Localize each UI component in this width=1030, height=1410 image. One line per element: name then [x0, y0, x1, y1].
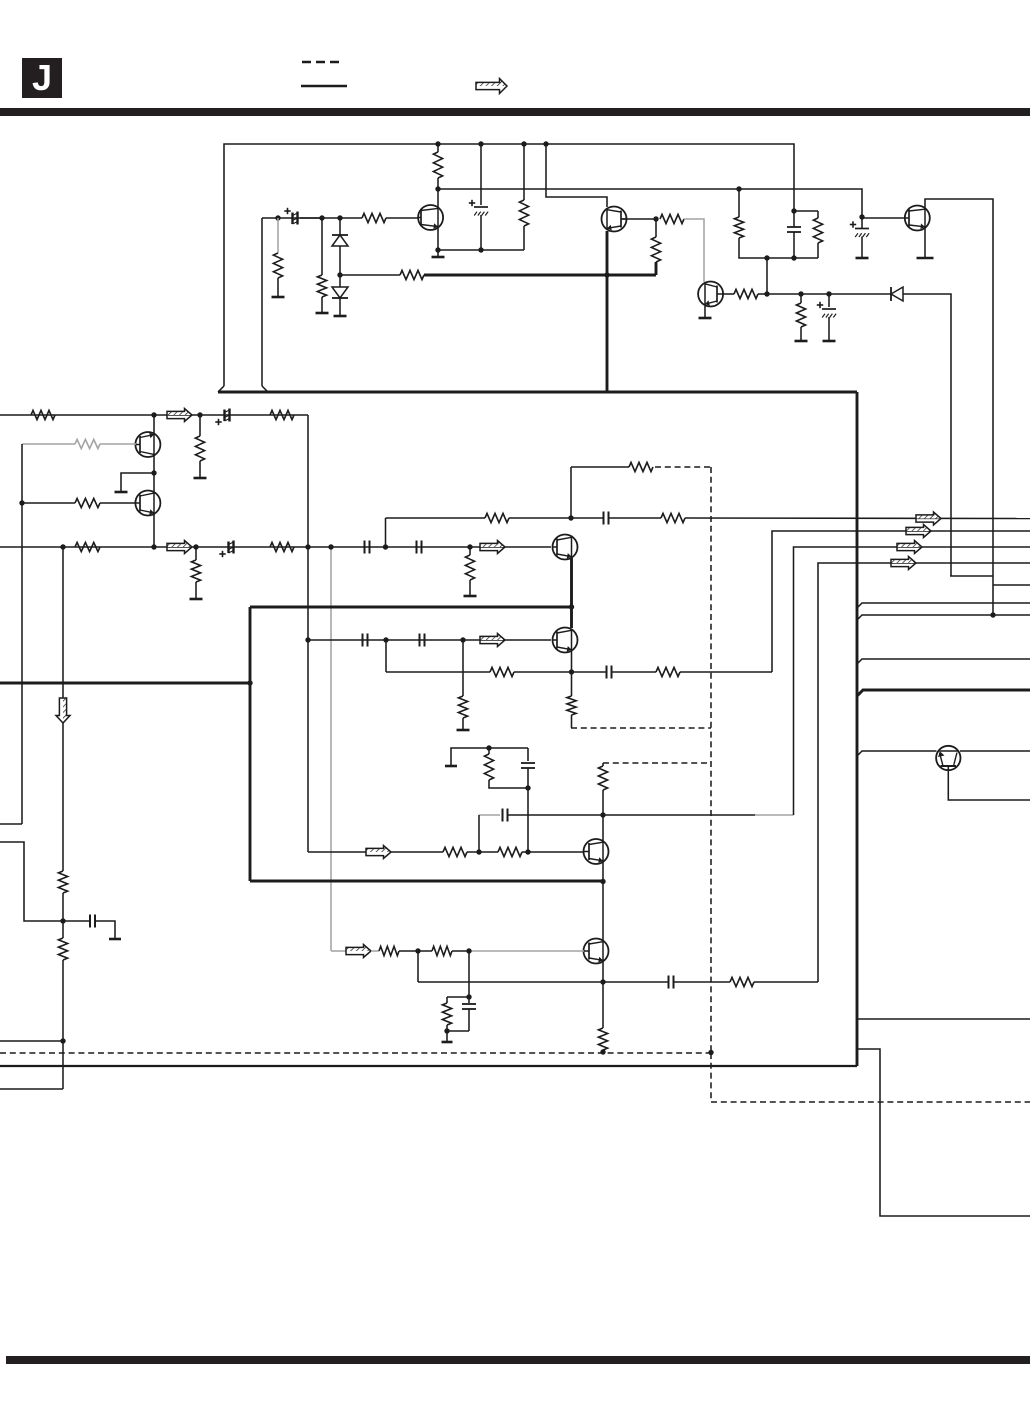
svg-text:J: J [32, 57, 52, 98]
wire row518d [685, 517, 1030, 520]
resistor R25 [458, 696, 467, 718]
ground g10 [194, 477, 207, 480]
wire 751 right [960, 750, 1030, 752]
resistor R31 [598, 766, 607, 790]
wire ecap drop [480, 144, 482, 205]
node 748 [486, 745, 491, 750]
wire r9-row [758, 293, 767, 295]
wire grey bus 331 [330, 547, 332, 951]
wire row852d [522, 851, 584, 853]
wire rc2 gnd [446, 1031, 448, 1041]
node 547g [467, 544, 472, 549]
solid bottom rail [0, 1065, 857, 1067]
capacitor C3 [822, 308, 836, 310]
transistor Q11 [584, 939, 609, 964]
wire r6 low [523, 226, 525, 250]
wire QD emitter [924, 228, 926, 257]
node 547a [60, 544, 65, 549]
node 640a [305, 637, 310, 642]
wire row815a [508, 814, 755, 816]
wire row518b [509, 517, 603, 519]
wire row294 [767, 293, 891, 295]
resistor R8 [651, 237, 660, 262]
wire inner vertical [261, 218, 263, 386]
arrow out1 [916, 512, 941, 519]
ground g7 [823, 340, 836, 343]
wire riser 528 [527, 788, 529, 852]
dashed bottom corner [711, 1053, 1030, 1102]
wire corner 794 [794, 547, 1030, 815]
capacitor C14 [521, 762, 535, 764]
ground g2 [316, 312, 329, 315]
resistor R21 [485, 513, 509, 522]
wire rowB [308, 639, 551, 641]
wire node-d2 [339, 275, 341, 287]
resistor R30 [498, 847, 522, 856]
wire riser 479 [478, 815, 480, 852]
wire VCC2 [438, 189, 862, 217]
wire tap 615 [857, 615, 1030, 620]
wire c17 low [468, 1009, 470, 1031]
wire top rail [224, 144, 794, 386]
node 547e [328, 544, 333, 549]
wire QB base lead [622, 218, 656, 220]
wire r14 gnd [199, 461, 201, 477]
wire q5 collector [153, 415, 155, 434]
page header: section letter box J [22, 58, 62, 98]
transistor Q7 [553, 535, 578, 560]
transistor Q8 [936, 746, 960, 770]
node vcc a [435, 141, 440, 146]
resistor R20 [465, 555, 474, 580]
wire corner 818 [818, 563, 1030, 982]
resistor R35 [730, 977, 754, 986]
wire row951a [371, 950, 379, 952]
node 547f [383, 544, 388, 549]
header arrow [476, 79, 507, 87]
wire row842 [0, 842, 63, 921]
wire riser 308 [307, 415, 309, 852]
wire q6 emitter [153, 514, 155, 547]
node qb base [653, 216, 658, 221]
transistor Q2 [602, 207, 627, 232]
wire d3 to corner [903, 294, 951, 576]
capacitor C12 [419, 634, 421, 647]
resistor R37 [58, 871, 67, 893]
wire thick bottom rail of top box [218, 391, 857, 394]
wire row415 [0, 414, 308, 416]
node 881 [600, 879, 605, 884]
node 921 [60, 918, 65, 923]
resistor R12 [31, 410, 55, 419]
capacitor C1 [291, 213, 293, 225]
node 672 [569, 669, 574, 674]
resistor R26 [490, 667, 514, 676]
ground g17 [109, 938, 121, 941]
resistor R1 [362, 213, 386, 222]
wire col63 mid2 [62, 893, 64, 938]
ground g8 [856, 257, 869, 260]
node 547b [151, 544, 156, 549]
node 294a [764, 291, 769, 296]
wire row951b [399, 950, 432, 952]
wire q5 base grey [100, 443, 136, 445]
node 473 [151, 470, 156, 475]
diode D2 [332, 287, 348, 298]
wire c18 right [96, 921, 116, 938]
wire right tap 1019 [857, 1018, 1030, 1020]
wire r24 dash link [571, 715, 573, 728]
wire d1-node [339, 246, 341, 275]
wire r25 gnd [462, 718, 464, 729]
wire thick rail 881 [250, 880, 603, 883]
resistor R11 [813, 218, 822, 243]
node 218b [319, 215, 324, 220]
capacitor C6 [223, 410, 225, 422]
capacitor C15 [502, 809, 504, 822]
resistor R7 [660, 214, 684, 223]
dashed box1 top [655, 466, 711, 468]
ground g6 [795, 340, 808, 343]
capacitor C13 [606, 666, 608, 679]
wire c5 gnd [861, 237, 863, 258]
wire corner 772 [772, 531, 1030, 672]
capacitor C4 [787, 226, 801, 228]
resistor R4 [400, 270, 424, 279]
node 275b [604, 272, 609, 277]
wire QA gnd [437, 250, 439, 256]
arrow in1 [167, 409, 192, 416]
wire rc gnd lead [451, 748, 528, 766]
wire rc bottom [489, 780, 528, 788]
wire rc right drop [527, 748, 529, 761]
node 640c [460, 637, 465, 642]
wire QC base lead [723, 293, 734, 295]
wire r4 lead [340, 274, 400, 276]
resistor R18 [270, 542, 294, 551]
wire R31 top [602, 763, 604, 766]
wire row982b [674, 981, 730, 983]
resistor R6 [519, 200, 528, 226]
wire row852a [308, 851, 366, 853]
wire riser 469 [468, 951, 470, 1003]
node vcc b [478, 141, 483, 146]
wire jog 585 [993, 584, 1030, 586]
wire c4 bottom [793, 232, 795, 258]
wire QC emitter [704, 306, 706, 317]
resistor R14 [195, 436, 204, 461]
wire grey corner 951 [331, 950, 346, 952]
capacitor C7 [227, 542, 229, 554]
wire c4 top [793, 211, 795, 227]
wire left vert 22 [21, 444, 23, 824]
arrow in2 [167, 541, 192, 548]
node 1052b [708, 1050, 713, 1055]
arrow in4 [480, 634, 505, 641]
wire rc2 link [447, 1030, 469, 1032]
wire thick right bus [856, 392, 859, 1066]
transistor Q5 [135, 432, 160, 457]
wire R39 bottom [739, 238, 767, 258]
wire row672d [680, 671, 772, 673]
capacitor C11 [362, 634, 364, 647]
wire bus corner 1049 [857, 1049, 1030, 1216]
wire row518a [386, 517, 486, 519]
wire 211-818 [794, 210, 818, 212]
node 275 [337, 272, 342, 277]
node 852a [476, 849, 481, 854]
wire gnd L [121, 473, 154, 491]
wire row258 [767, 258, 818, 294]
transistor Q1 [418, 205, 443, 230]
capacitor C17 [462, 1003, 476, 1005]
wire drop D1 [339, 218, 341, 235]
wire row824 [0, 823, 22, 825]
wire thick tap 690 [857, 690, 1030, 696]
resistor R22 [661, 513, 685, 522]
wire r31-815 [602, 790, 604, 815]
resistor R9 [734, 289, 758, 298]
wire tap 603 [857, 603, 1030, 608]
wire rc2 top [447, 996, 469, 998]
wire row815 grey [755, 814, 794, 816]
ground g1 [272, 296, 285, 299]
ground g11 [115, 491, 128, 494]
wire q5-q6 [153, 455, 155, 492]
node 189 [435, 186, 440, 191]
wire QB feed [546, 144, 607, 207]
wire rc2 r top [446, 997, 448, 1003]
arrow down [63, 698, 70, 723]
wire q5 base grey2 [22, 443, 75, 445]
capacitor C2 [474, 206, 488, 208]
resistor R13 [270, 410, 294, 419]
resistor R24 [567, 696, 576, 715]
wire col63 upper [62, 547, 64, 698]
top rule bar [0, 108, 1030, 116]
wire corner 1087 [0, 1088, 63, 1090]
wire R39 top [738, 189, 740, 217]
wire r10 gnd [800, 327, 802, 340]
resistor R28 [484, 754, 493, 780]
wire jog 576 [950, 575, 993, 577]
resistor R10 [796, 303, 805, 327]
ground g15 [445, 765, 457, 768]
wire R28 top [488, 748, 490, 754]
wire r16-base [100, 502, 136, 504]
wire R19 drop [195, 547, 197, 560]
wire R10 drop [800, 294, 802, 303]
wire c3 gnd [828, 317, 830, 340]
node vcc d [543, 141, 548, 146]
wire fb riser [570, 467, 572, 518]
resistor R34 [432, 946, 452, 955]
transistor Q10 [584, 839, 609, 864]
arrow in5 [366, 846, 391, 853]
resistor R3 [317, 275, 326, 297]
wire drop R3 [321, 218, 323, 275]
wire thick rail 683 [0, 682, 250, 685]
arrow out4 [891, 557, 916, 564]
resistor R36 [442, 1003, 451, 1025]
node 997 [466, 994, 471, 999]
wire R20 drop [469, 547, 471, 555]
resistor R17 [75, 542, 100, 551]
ground g3 [334, 315, 347, 318]
node 852b [525, 849, 530, 854]
wire row672b [514, 671, 606, 673]
wire thick left bus [249, 607, 252, 881]
wire R11 top [817, 211, 819, 218]
wire R14 drop [199, 415, 201, 436]
wire q11 emitter [602, 962, 604, 1028]
resistor R16 [75, 498, 100, 507]
wire row852c [467, 851, 498, 853]
wire QD collector [925, 199, 993, 615]
wire row1041 [0, 1040, 63, 1042]
wire q10 collector [602, 815, 604, 841]
wire r32 dash [602, 1050, 604, 1052]
resistor R33 [379, 946, 399, 955]
wire riser 385 [385, 518, 387, 547]
wire q9 emitter [571, 651, 573, 696]
node 294b [798, 291, 803, 296]
resistor R39 [734, 217, 743, 238]
ground g4 [432, 256, 445, 259]
wire r11 low [817, 243, 819, 258]
node vcc c [521, 141, 526, 146]
resistor R19 [191, 560, 200, 582]
node 218a [275, 215, 280, 220]
diode D1 [332, 234, 348, 236]
wire thick Q2 emitter drop [606, 231, 609, 392]
resistor R23 [629, 462, 653, 471]
wire row672c [612, 671, 656, 673]
transistor Q9 [553, 628, 578, 653]
capacitor C5 [855, 228, 869, 230]
resistor R2 [273, 253, 282, 278]
arrow in6 [346, 945, 371, 952]
wire q7 thick emitter [570, 558, 573, 628]
wire row672 riser [385, 640, 387, 672]
capacitor C18 [89, 915, 91, 928]
node 640b [383, 637, 388, 642]
wire c3 top [828, 294, 830, 307]
wire R6 top [523, 144, 525, 200]
wire thick rail 607 [250, 606, 572, 609]
dashed box1 bottom [571, 727, 711, 729]
node 415b [197, 412, 202, 417]
transistor Q4 [905, 206, 930, 231]
wire row982c [754, 981, 818, 983]
wire c18 left [63, 920, 90, 922]
ground g5 [699, 317, 712, 320]
ground g12 [190, 598, 203, 601]
transistor Q3 [698, 282, 723, 307]
node 982 [600, 979, 605, 984]
transistor Q6 [135, 491, 160, 516]
resistor R27 [656, 667, 680, 676]
wire R25 drop [462, 640, 464, 696]
wire r2-gnd [277, 278, 279, 296]
node 815 [600, 812, 605, 817]
wire fb top [571, 466, 629, 468]
capacitor C16 [668, 976, 670, 989]
wire c2 low [480, 215, 482, 250]
capacitor C9 [416, 541, 418, 554]
wire grey stub 815 [479, 814, 500, 816]
node 294c [826, 291, 831, 296]
node 250a [435, 247, 440, 252]
header underline [301, 85, 347, 88]
ground g9 [917, 257, 934, 260]
wire c14 low [527, 768, 529, 788]
wire R8 up [655, 219, 657, 237]
node 250b [478, 247, 483, 252]
arrow in3 [480, 541, 505, 548]
wire inner vertical jog [262, 386, 268, 392]
ground g14 [457, 729, 470, 732]
wire row982a [418, 981, 668, 983]
wire r19 gnd [195, 582, 197, 598]
node q6 base [19, 500, 24, 505]
ground g13 [464, 595, 477, 598]
wire row852b [391, 851, 443, 853]
node 547c [193, 544, 198, 549]
node 211 [791, 208, 796, 213]
wire c1 [300, 217, 322, 219]
wire QD base [862, 217, 905, 219]
wire q10-q11 [602, 862, 604, 941]
dashed box1 right [710, 467, 712, 1052]
wire rc2 r low [446, 1025, 448, 1031]
wire row672a [386, 671, 490, 673]
wire c5 top [861, 217, 863, 229]
diode D3 [890, 287, 892, 301]
node 518 [568, 515, 573, 520]
resistor R15 [75, 439, 100, 448]
wire col63 mid [62, 723, 64, 871]
header dashes [302, 61, 341, 64]
node 547d [305, 544, 310, 549]
resistor R5 [433, 152, 442, 178]
resistor R32 [598, 1028, 607, 1050]
wire col63 low [62, 960, 64, 1089]
resistor R29 [443, 847, 467, 856]
wire row951c [452, 950, 469, 952]
wire rowA [0, 546, 551, 548]
node 951a [415, 948, 420, 953]
wire row250 [438, 249, 524, 251]
node 258b [791, 255, 796, 260]
dashed bottom rail [0, 1052, 711, 1054]
node 258a [764, 255, 769, 260]
bottom rule bar [6, 1356, 1030, 1364]
node 788 [525, 785, 530, 790]
wire QA collector [437, 144, 439, 152]
wire r1-base [386, 217, 418, 219]
wire tap 751 [857, 751, 937, 756]
node 1031 [444, 1028, 449, 1033]
wire QA emitter [437, 228, 439, 250]
wire R8 low thick [655, 262, 658, 275]
capacitor C8 [364, 541, 366, 554]
wire grey drop R2 [277, 218, 279, 253]
resistor R38 [58, 938, 67, 960]
capacitor C10 [603, 512, 605, 525]
node 1041 [60, 1038, 65, 1043]
wire thick 275 [424, 274, 656, 277]
